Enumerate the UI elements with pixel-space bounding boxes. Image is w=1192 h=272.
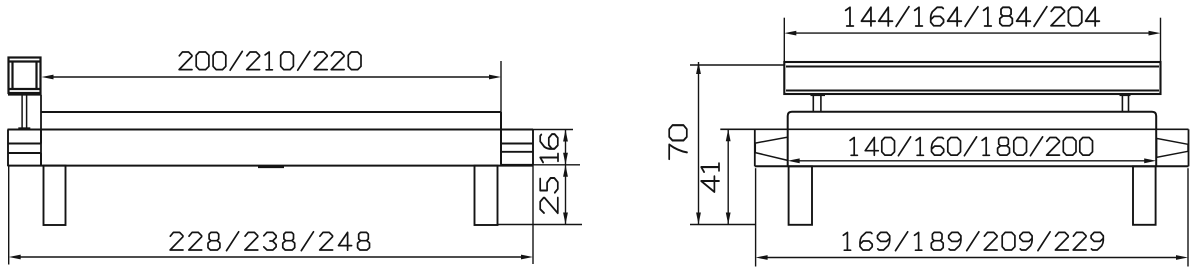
dim 144/164/184/204	[784, 18, 1160, 62]
right rail section	[1188, 129, 1190, 166]
left rail block	[8, 130, 41, 167]
rail top long line	[720, 128, 1188, 130]
text 16	[540, 134, 558, 162]
post bottom tick	[18, 127, 30, 129]
rail bottom line	[8, 165, 534, 167]
right legs	[789, 166, 812, 225]
text 25	[540, 178, 558, 213]
right: top board	[784, 62, 1160, 94]
right leg	[475, 166, 498, 225]
platform right edge	[500, 112, 502, 165]
posts	[811, 95, 1131, 112]
center leg mark	[258, 166, 284, 168]
headboard panel edge	[40, 95, 42, 166]
dim 169/189/209/229	[756, 168, 1188, 266]
headboard knob	[9, 58, 41, 94]
right rail block	[501, 130, 533, 165]
dim 41	[727, 129, 729, 224]
knob shoulder	[8, 94, 42, 96]
left leg	[44, 166, 66, 225]
platform bottom line	[755, 165, 1189, 167]
text 41	[701, 163, 719, 192]
dim 70	[690, 62, 784, 225]
dim 228/238/248	[9, 165, 533, 265]
left rail section	[754, 129, 756, 166]
text 70	[669, 125, 687, 159]
dims 16 / 25	[498, 130, 583, 225]
headboard post	[21, 95, 23, 130]
rail top line	[8, 129, 534, 131]
dim 140/160/180/200	[799, 160, 1145, 162]
platform top	[41, 111, 501, 113]
platform board	[788, 112, 1156, 167]
dim 200/210/220	[52, 61, 501, 112]
